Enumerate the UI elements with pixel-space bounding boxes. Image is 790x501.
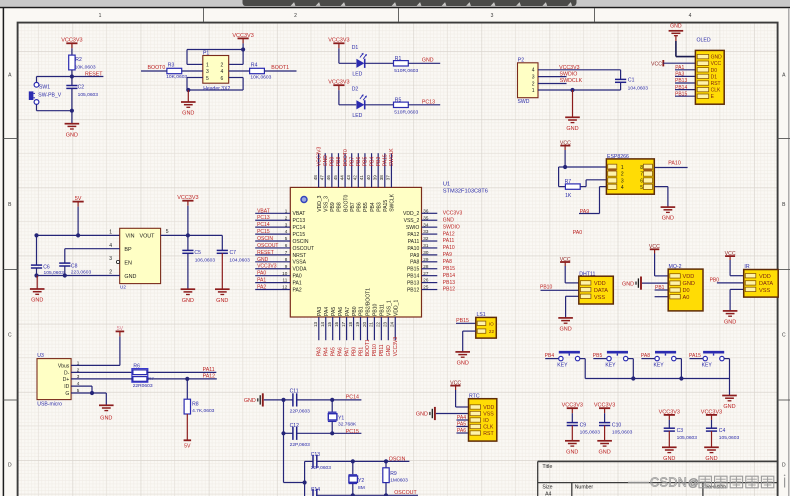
svg-text:1M0603: 1M0603 [390,477,408,483]
svg-text:5: 5 [285,236,288,241]
svg-text:7: 7 [640,172,643,178]
svg-text:PA12: PA12 [443,231,455,237]
wire [654,187,668,208]
node PC14 [346,394,359,400]
wire [71,48,73,55]
svg-text:PC14: PC14 [257,222,270,228]
svg-text:9: 9 [285,264,288,269]
svg-text:P1: P1 [203,51,209,57]
row letter B right [782,202,786,208]
wire [186,414,188,440]
svg-text:VCC3V3: VCC3V3 [232,33,253,39]
svg-text:44: 44 [339,175,344,181]
node PA1 [675,65,695,71]
wire [187,253,189,289]
svg-text:1: 1 [77,360,80,365]
svg-text:OSCIN: OSCIN [293,239,309,245]
key PA8 [641,352,682,378]
mcu pin 9 VCC3V3 [255,264,290,270]
svg-text:27: 27 [423,271,429,276]
ground (reset) [65,124,80,139]
ground (OLED) [669,24,684,41]
svg-text:PC15: PC15 [293,232,306,238]
capacitor C4 [706,428,740,441]
wire [71,377,217,381]
svg-text:14: 14 [320,321,325,327]
row letter D right [782,463,786,469]
crystal Y1 [328,412,357,427]
svg-text:42: 42 [353,175,358,181]
svg-text:C4: C4 [719,428,726,434]
svg-text:GND: GND [182,298,194,304]
svg-text:R2: R2 [75,57,82,63]
capacitor C7 [217,250,250,264]
row letter D left [8,463,12,469]
wire [317,483,418,498]
svg-text:GND: GND [100,416,112,422]
wire [571,413,573,422]
ground (regulator) [30,276,45,304]
wire [668,420,670,428]
ground (C3) [662,447,677,462]
capacitor C13 [311,452,332,471]
svg-text:PB14: PB14 [443,273,455,279]
svg-text:SW1: SW1 [39,84,50,90]
svg-text:15: 15 [327,321,332,327]
svg-text:SW-PB_V: SW-PB_V [38,92,61,98]
svg-text:OSCOUT: OSCOUT [257,243,278,249]
wire [663,62,695,64]
svg-text:GND: GND [66,132,78,138]
wire [71,386,106,405]
svg-text:PA11: PA11 [443,238,455,244]
svg-text:3: 3 [206,69,209,75]
svg-text:G: G [65,391,69,397]
svg-text:VDD_3: VDD_3 [317,195,323,211]
usb connector U3 [37,353,80,408]
svg-text:29: 29 [423,257,429,262]
svg-text:PA5: PA5 [457,422,466,428]
svg-text:VSS: VSS [594,295,605,301]
svg-text:510R,0603: 510R,0603 [394,68,418,74]
svg-text:47: 47 [320,175,325,181]
svg-text:GND: GND [323,155,329,167]
capacitor C1 [615,78,648,92]
wire [339,90,356,105]
svg-text:105,0603: 105,0603 [677,435,698,441]
svg-text:33: 33 [423,229,429,234]
svg-text:GND: GND [683,281,695,287]
svg-text:25: 25 [423,285,429,290]
svg-text:U2: U2 [120,285,126,290]
power VCC3V3 (LED2) [328,80,349,91]
node PB13 [675,78,695,84]
node PC13 (LED2) [408,99,440,105]
ground (keys) [722,396,737,411]
wire [221,253,223,289]
svg-text:48: 48 [313,175,318,181]
ground (MQ-2) [622,277,641,290]
svg-text:1: 1 [206,63,209,69]
svg-text:PA7: PA7 [345,307,351,316]
wire [297,398,362,412]
svg-text:PA1: PA1 [293,281,302,287]
row letter C right [782,333,786,339]
node PB15 (OLED) [675,91,695,97]
svg-text:VCC3V3: VCC3V3 [316,147,322,167]
svg-text:VCC3V3: VCC3V3 [393,337,399,357]
svg-text:PA1: PA1 [257,278,266,284]
svg-text:C12: C12 [290,423,300,429]
resistor R9 [383,468,408,484]
row letter A left [8,73,12,79]
power VCC (ESP8266) [560,141,571,151]
key PB5 [593,352,634,378]
svg-text:GND: GND [31,298,43,304]
power VCC3V3 (C3) [659,409,680,420]
ground (IR) [723,311,738,326]
svg-text:RST: RST [711,81,721,87]
svg-text:PC15: PC15 [346,429,359,435]
svg-text:KEY: KEY [654,362,665,368]
mcu pin 44 BOOT0 [339,149,349,187]
svg-text:VCC: VCC [711,61,722,67]
node PA12 [203,373,216,379]
wire [604,426,606,441]
mcu pin 23 GND [383,317,393,356]
mcu pin 31 PA10 [422,243,455,251]
wire [182,70,203,72]
svg-text:PA9: PA9 [443,252,452,258]
svg-text:22P,0603: 22P,0603 [290,442,311,448]
wire [566,296,579,318]
svg-text:GND: GND [724,320,736,326]
svg-text:PB12: PB12 [443,287,455,293]
svg-text:PB10: PB10 [372,344,378,356]
svg-text:VCC3V3: VCC3V3 [559,65,580,71]
mcu pin 32 PA11 [422,236,455,244]
wire [538,70,621,92]
svg-text:R5: R5 [395,97,402,103]
svg-text:21: 21 [369,321,374,327]
svg-text:4: 4 [221,69,224,75]
svg-text:GND: GND [257,257,269,263]
svg-text:PA6: PA6 [457,428,466,434]
power VCC3V3 (C10) [594,403,615,414]
resistor R3 [166,63,187,81]
svg-text:PB1: PB1 [358,347,364,357]
power 5V (USB) [116,326,125,337]
watermark CSDN [628,475,785,490]
mcu pin 5 OSCIN [255,236,290,242]
node PA0 label [573,230,583,236]
svg-text:39: 39 [372,175,377,181]
svg-text:PA1: PA1 [675,65,684,71]
wire [65,249,120,263]
svg-text:VBAT: VBAT [293,211,306,217]
mcu pin 13 PA3 [313,317,323,356]
svg-text:EN: EN [124,260,132,266]
svg-text:CLK: CLK [711,88,721,94]
column number 3 [491,13,494,19]
svg-text:1: 1 [109,230,112,236]
wire [34,268,38,278]
ground (C9) [565,441,580,456]
top gray strip [0,0,790,7]
wire [655,296,669,298]
svg-text:5V: 5V [184,444,191,450]
node PB1 [655,285,669,291]
power VCC (MQ-2) [649,244,660,254]
svg-text:OSCIN: OSCIN [389,456,406,462]
node PB10 [540,284,579,290]
svg-text:22: 22 [489,329,495,334]
wire [353,461,386,495]
mcu pin 28 PB15 [422,264,456,272]
power VCC (DHT11) [560,257,571,266]
svg-text:5V: 5V [117,326,124,332]
svg-text:3: 3 [285,222,288,227]
capacitor C6 [31,265,64,277]
mcu U1 STM32F103C8T6 [290,182,488,318]
svg-text:PA3: PA3 [317,347,323,356]
mcu pin 43 PB7 [346,153,356,187]
svg-text:R4: R4 [251,63,258,69]
wire [571,426,573,441]
svg-text:PA12: PA12 [203,373,216,379]
svg-text:PA0: PA0 [573,230,583,236]
svg-text:46: 46 [326,175,331,181]
svg-text:GND: GND [457,361,469,367]
mcu pin 36 VCC3V3 [422,208,463,216]
svg-text:PC14: PC14 [293,225,306,231]
svg-text:VCC: VCC [651,61,662,67]
svg-text:23: 23 [383,321,388,327]
svg-text:IO: IO [489,321,494,326]
mcu pin 40 PB4 [366,153,376,187]
node PA3 [675,72,695,78]
node PB14 [675,85,695,91]
wire [305,459,410,463]
ground (ESP8266) [661,207,676,222]
svg-text:VDDA: VDDA [293,267,308,273]
mcu pin 17 PA7 [341,317,351,356]
wire [463,331,476,352]
svg-text:VCC3V3: VCC3V3 [562,403,583,409]
svg-text:PA10: PA10 [443,245,455,251]
svg-text:PA10: PA10 [668,161,681,167]
svg-text:2: 2 [285,215,288,220]
svg-text:5: 5 [640,185,643,191]
mcu pin 37 SWCLK [386,148,396,188]
svg-text:PB4: PB4 [369,157,375,167]
svg-text:SWDIO: SWDIO [560,71,578,77]
mcu pin 3 PC14 [255,222,290,228]
svg-text:GND: GND [443,217,455,223]
capacitor C10 [599,422,633,435]
svg-text:PB8: PB8 [337,202,343,212]
svg-text:16: 16 [334,321,339,327]
svg-text:PB4: PB4 [370,202,376,212]
wire [71,371,132,373]
svg-text:PB2/BOOT1: PB2/BOOT1 [366,288,372,316]
svg-text:VSS: VSS [483,412,494,418]
svg-text:VDD: VDD [759,274,771,280]
svg-text:C1: C1 [628,78,635,84]
svg-text:SWDIO: SWDIO [443,224,460,230]
wire [676,41,696,57]
svg-text:18: 18 [348,321,353,327]
wire [456,390,469,407]
wire [161,233,223,237]
mcu pin 29 PA8 [422,257,453,265]
svg-text:VCC3V3: VCC3V3 [61,38,82,44]
svg-text:10: 10 [282,271,288,276]
svg-text:Vbus: Vbus [58,363,70,369]
header P1 [203,51,231,92]
node PA9 [580,209,590,215]
mcu pin 2 PC13 [255,215,290,221]
ground (C7) [215,289,230,304]
module IR [744,264,779,297]
svg-text:A0: A0 [683,295,690,301]
wire [70,88,74,112]
resistor R4 [250,63,272,81]
svg-text:105,0603: 105,0603 [580,429,601,435]
svg-text:VDD: VDD [594,281,606,287]
mcu pin 16 PA6 [334,317,344,356]
mcu pin 46 PB9 [326,153,336,187]
svg-text:PA3: PA3 [317,307,323,316]
svg-text:D0: D0 [711,68,718,74]
svg-text:D1: D1 [711,74,718,80]
svg-text:PC15: PC15 [257,229,270,235]
svg-text:VCC3V3: VCC3V3 [659,409,680,415]
mcu pin 7 RESET [255,250,290,256]
ground (boot) [181,90,196,117]
module OLED [695,37,724,104]
svg-text:PA15: PA15 [383,154,389,166]
svg-text:1K: 1K [565,193,572,199]
svg-text:1: 1 [532,88,535,94]
svg-text:3: 3 [109,256,112,262]
svg-text:PB9: PB9 [330,202,336,212]
svg-text:PC14: PC14 [346,394,359,400]
svg-text:PB8: PB8 [336,157,342,167]
power VCC3V3 (boot) [232,33,253,44]
svg-text:BOOT0: BOOT0 [148,65,166,71]
svg-text:CSDN: CSDN [650,476,687,490]
wire [186,379,188,400]
svg-text:31: 31 [423,243,429,248]
svg-text:C7: C7 [230,250,237,256]
svg-text:IO: IO [483,418,488,424]
wire [187,206,189,251]
svg-text:PA4: PA4 [324,347,330,356]
column separators [204,8,595,22]
node BOOT1 [264,65,296,71]
mcu pin 38 PA15 [379,153,389,187]
node PA6 [457,428,469,434]
svg-text:5: 5 [206,76,209,82]
svg-text:DATA: DATA [594,288,608,294]
mcu pin 42 PB6 [353,153,363,187]
svg-text:22P,0603: 22P,0603 [290,408,311,414]
mcu pin 30 PA9 [422,250,453,258]
svg-text:41: 41 [359,175,364,181]
regulator U2 [109,228,168,289]
mcu pin 26 PB13 [422,278,456,286]
wire [365,104,394,106]
svg-text:13: 13 [313,321,318,327]
svg-text:GND: GND [670,24,682,30]
svg-text:GND: GND [182,111,194,117]
svg-text:OLED: OLED [697,37,711,43]
wire [36,235,38,265]
resistor R7 [565,179,581,199]
svg-text:PB9: PB9 [330,157,336,167]
svg-text:2: 2 [621,172,624,178]
svg-text:PA7: PA7 [344,347,350,356]
wire [187,43,245,64]
svg-text:VSS_1: VSS_1 [387,300,393,316]
svg-text:Y1: Y1 [338,416,344,422]
wire [148,371,217,373]
svg-text:GND: GND [559,327,571,333]
power VCC3V3 (C4) [701,409,722,420]
svg-text:1: 1 [285,208,288,213]
svg-text:6: 6 [285,243,288,248]
svg-text:ID: ID [64,384,69,390]
capacitor C11 [290,389,311,415]
mcu pin 8 GND [255,257,290,263]
ground (crystal bus) [244,393,263,406]
wire [436,413,469,415]
wire [284,432,362,434]
svg-text:VIN: VIN [126,234,135,240]
svg-text:PB6: PB6 [357,202,363,212]
wire [711,431,713,447]
svg-text:PB1: PB1 [359,306,365,316]
power 5V (regulator) [73,196,84,207]
svg-text:PB5: PB5 [363,202,369,212]
resistor R6 R7 pair [132,364,154,389]
svg-text:PB7: PB7 [350,202,356,212]
power VCC (IR) [725,251,736,260]
capacitor C14 [311,487,321,501]
svg-text:LED: LED [352,113,362,119]
node BOOT0 [141,65,167,71]
header P2 SWD [518,57,539,105]
svg-text:VCC3V3: VCC3V3 [328,38,349,44]
wire [365,62,394,64]
svg-text:R9: R9 [390,471,397,477]
node PB15 (buzzer) [456,318,476,324]
mcu pin 1 VBAT [255,208,290,214]
row letter B left [8,202,12,208]
svg-text:PA11: PA11 [203,367,215,373]
power VCC3V3 (C9) [562,403,583,414]
node PB0 [710,278,744,284]
svg-text:PB12: PB12 [407,287,420,293]
key PB4 [545,352,586,378]
svg-text:PB3: PB3 [376,202,382,212]
svg-text:PA0: PA0 [293,274,302,280]
node SWDIO [538,71,577,77]
mcu pin 6 OSCOUT [255,243,290,249]
svg-text:PB10: PB10 [540,284,552,290]
wire [37,266,120,278]
